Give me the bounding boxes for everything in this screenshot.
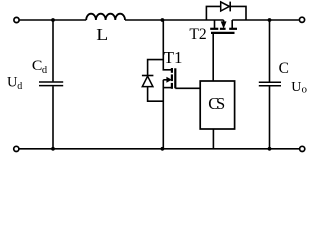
svg-text:d: d: [42, 65, 48, 76]
terminal bottom-left: [14, 146, 19, 151]
transistor T1 gate bar: [174, 68, 176, 88]
capacitor Cd: [39, 82, 63, 86]
wire top rail right (T2 source to terminal): [232, 19, 299, 21]
svg-text:C: C: [279, 60, 289, 77]
transistor T2 gate bar: [211, 32, 235, 34]
terminal top-left: [14, 17, 19, 22]
diode D1 symbol: [142, 75, 154, 77]
junction dot Cd bottom: [51, 147, 55, 151]
terminal bottom-right: [300, 146, 305, 151]
terminal top-right: [299, 17, 304, 22]
transistor T1 source lead: [162, 80, 164, 149]
node A junction dot: [161, 18, 165, 22]
wire top rail middle (inductor to T2 arrow): [125, 19, 224, 21]
svg-text:d: d: [17, 81, 22, 92]
CS box: [200, 81, 234, 129]
wire Cd branch upper: [52, 20, 54, 81]
transistor T1 drain lead: [163, 20, 172, 70]
wire bottom rail: [19, 148, 300, 150]
junction dot C bottom: [268, 147, 272, 151]
transistor T1 channel bar: [171, 68, 173, 89]
wire top rail left (terminal to inductor): [19, 19, 87, 21]
transistor T2 source stub: [231, 20, 233, 29]
transistor T1 body arrow: [163, 79, 167, 81]
svg-text:T2: T2: [189, 26, 206, 43]
wire T2 gate to CS: [212, 33, 214, 81]
wire C branch lower: [269, 87, 271, 149]
svg-text:L: L: [96, 25, 108, 44]
svg-text:C: C: [32, 58, 43, 74]
transistor T2 channel bar: [210, 28, 237, 30]
svg-text:T1: T1: [164, 48, 183, 67]
transistor T1 source stub: [163, 87, 172, 89]
inductor L: [86, 14, 125, 20]
wire T1 gate to CS: [175, 87, 200, 89]
node Cd-top junction dot: [51, 18, 55, 22]
node B junction dot: [268, 18, 272, 22]
svg-text:U: U: [291, 80, 301, 95]
diode D2 bypass wire: [206, 6, 246, 20]
svg-text:o: o: [302, 83, 308, 95]
transistor T2 drain stub: [214, 20, 216, 29]
transistor T2 body arrow: [223, 20, 225, 22]
wire C branch upper: [269, 20, 271, 82]
junction dot T1 bottom: [161, 147, 165, 151]
diode D2 symbol: [221, 2, 230, 11]
capacitor C: [259, 82, 281, 86]
diode D1 loop: [148, 60, 164, 102]
wire CS to bottom rail: [212, 129, 214, 149]
wire Cd branch lower: [52, 86, 54, 149]
